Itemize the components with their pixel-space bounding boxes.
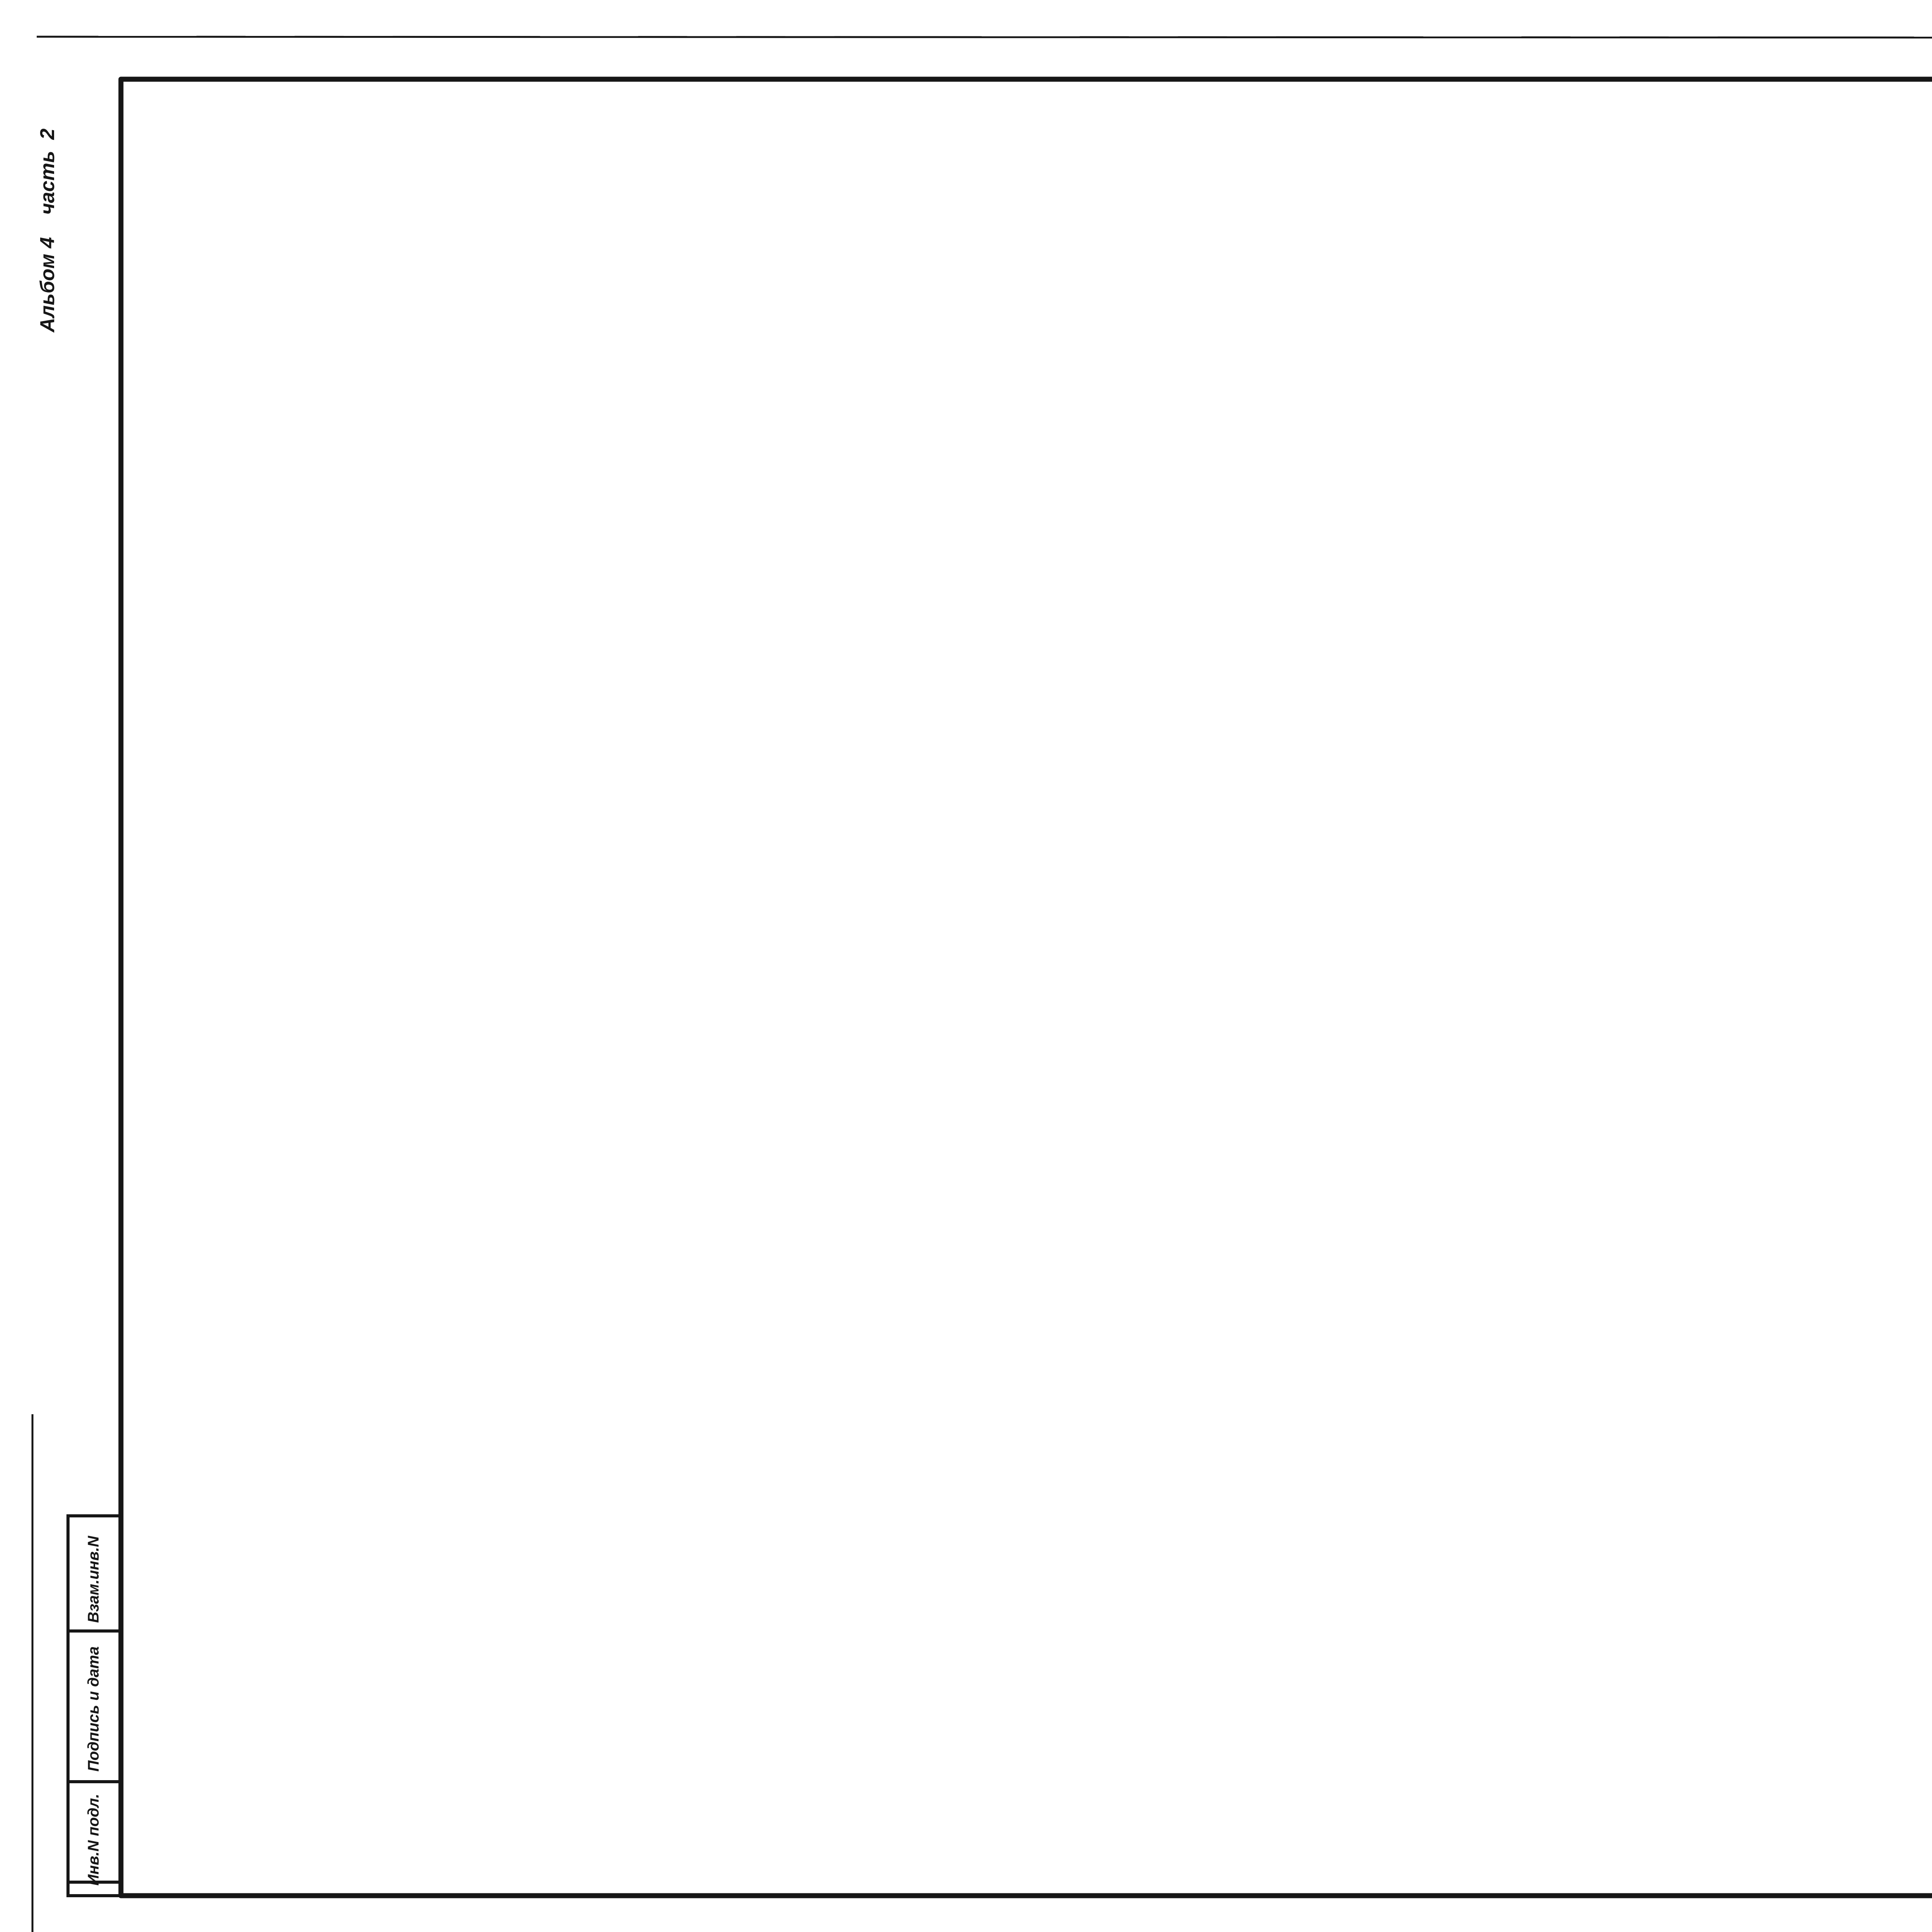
- svg-text:Альбом 4 часть 2: Альбом 4 часть 2: [36, 128, 59, 333]
- border outer top line: [37, 37, 1932, 38]
- svg-text:Инв.N подл.: Инв.N подл.: [85, 1794, 102, 1886]
- svg-text:Подпись и дата: Подпись и дата: [85, 1646, 102, 1772]
- svg-text:Взам.инв.N: Взам.инв.N: [85, 1536, 102, 1623]
- left outer border line: [32, 1414, 34, 1932]
- stamp column box: [68, 1516, 121, 1896]
